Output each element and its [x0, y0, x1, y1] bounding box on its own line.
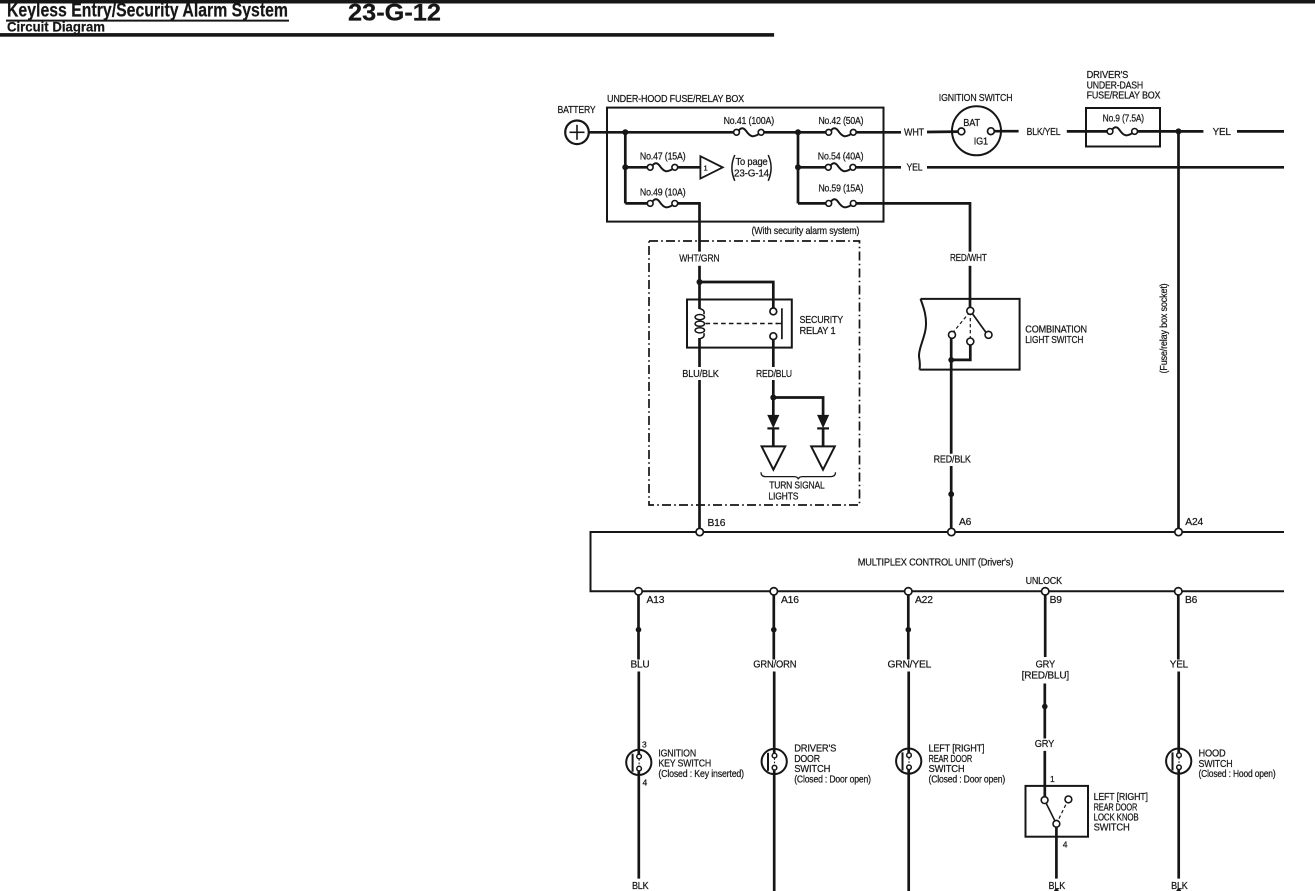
- wire: node to fuse54: [798, 166, 826, 169]
- svg-text:A6: A6: [959, 517, 972, 528]
- wire: IG1 to BLK/YEL: [994, 130, 1018, 133]
- svg-text:BATTERY: BATTERY: [558, 105, 596, 116]
- terminal B6: [1175, 588, 1198, 606]
- wire: BLK/YEL to under-dash box: [1067, 130, 1086, 133]
- svg-text:LIGHTS: LIGHTS: [768, 492, 798, 503]
- wire: A22 upper: [907, 595, 910, 660]
- wire: key switch to BLK: [637, 771, 640, 879]
- label TURN SIGNAL LIGHTS: [768, 481, 825, 503]
- svg-text:Circuit Diagram: Circuit Diagram: [7, 20, 105, 35]
- combination switch internal wires: [948, 338, 970, 369]
- fuse No.41 (100A): [724, 116, 774, 136]
- label LEFT [RIGHT] REAR DOOR LOCK KNOB SWITCH: [1094, 792, 1148, 834]
- wire: A22 to rear door switch: [907, 672, 910, 753]
- brace under lamps: [761, 472, 836, 479]
- wire: A16 to door switch: [773, 672, 776, 754]
- svg-text:4: 4: [1063, 840, 1068, 850]
- svg-text:No.49 (10A): No.49 (10A): [640, 187, 686, 198]
- battery B+: [565, 121, 589, 145]
- driver's door switch: [762, 749, 787, 774]
- junction: A6 node: [948, 491, 954, 497]
- svg-text:No.42 (50A): No.42 (50A): [818, 116, 863, 127]
- terminal A24: [1175, 517, 1204, 536]
- svg-text:1: 1: [704, 164, 708, 173]
- ignition key switch: [626, 739, 651, 787]
- left/right rear door switch: [896, 749, 921, 774]
- junction: B9 splice: [1042, 704, 1048, 710]
- junction: relay feed node: [697, 279, 703, 285]
- wire: fuse47 to arrow: [678, 166, 701, 169]
- wire: right bus vertical: [797, 132, 800, 203]
- lamp: turn signal left: [762, 446, 786, 469]
- svg-text:(Closed : Door open): (Closed : Door open): [929, 774, 1006, 785]
- svg-text:4: 4: [643, 778, 648, 788]
- wire: under-dash box to YEL: [1160, 130, 1203, 133]
- junction: battery feed node: [622, 129, 628, 135]
- wire: fuse49 to corner: [678, 203, 700, 251]
- wire: B6 to hood switch: [1177, 672, 1180, 753]
- lock knob switch contacts: [1041, 796, 1072, 827]
- wire: A24 vertical: [1177, 131, 1180, 528]
- diode D2: [817, 415, 829, 446]
- title underline: [6, 20, 289, 22]
- svg-text:BLK/YEL: BLK/YEL: [1027, 127, 1061, 138]
- svg-text:RELAY 1: RELAY 1: [800, 326, 836, 337]
- wire: door switch down: [773, 770, 776, 891]
- junction: A16 splice: [771, 627, 777, 633]
- security alarm dash-dot border: [649, 241, 860, 505]
- junction: A24 branch node: [1176, 128, 1182, 134]
- diode D1: [767, 415, 779, 446]
- arrow to page 23-G-14: [700, 156, 722, 178]
- lamp: turn signal right: [811, 446, 835, 469]
- fuse No.59 (15A): [818, 183, 863, 207]
- label COMBINATION LIGHT SWITCH: [1025, 325, 1087, 347]
- label DRIVER'S DOOR SWITCH: [794, 744, 871, 786]
- svg-text:TURN SIGNAL: TURN SIGNAL: [769, 481, 825, 492]
- terminal B16: [696, 518, 726, 536]
- svg-text:YEL: YEL: [1213, 127, 1232, 138]
- svg-text:WHT: WHT: [904, 127, 925, 138]
- rear door lock knob switch box: [1026, 786, 1089, 837]
- terminal A6: [948, 517, 972, 536]
- wire: GRY to lock knob switch: [1043, 751, 1046, 797]
- svg-text:FUSE/RELAY BOX: FUSE/RELAY BOX: [1087, 91, 1161, 102]
- terminal A13: [635, 588, 665, 606]
- svg-text:BLK: BLK: [632, 881, 649, 891]
- wire: B9 upper: [1044, 595, 1047, 657]
- svg-text:(Closed : Door open): (Closed : Door open): [794, 774, 871, 785]
- label DRIVER'S UNDER-DASH FUSE/RELAY BOX: [1087, 70, 1161, 102]
- note (To page 23-G-14): [732, 155, 771, 181]
- svg-text:BLU: BLU: [631, 660, 650, 671]
- svg-text:GRN/ORN: GRN/ORN: [753, 660, 796, 671]
- fuse No.47 (15A): [640, 151, 686, 171]
- wire: RED/BLK lower: [950, 466, 953, 528]
- svg-text:LIGHT SWITCH: LIGHT SWITCH: [1025, 335, 1083, 346]
- wire: A13 to key switch: [637, 672, 640, 755]
- under-hood fuse/relay box: [607, 108, 884, 222]
- svg-text:3: 3: [642, 739, 647, 749]
- label LEFT [RIGHT] REAR DOOR SWITCH: [929, 744, 1006, 786]
- wire: relay to diodes lower: [772, 380, 775, 416]
- hood switch: [1166, 749, 1191, 774]
- fuse No.42 (50A): [818, 116, 863, 136]
- svg-text:[RED/BLU]: [RED/BLU]: [1022, 670, 1070, 681]
- junction: node after fuse41: [795, 129, 801, 135]
- page top rule: [0, 0, 1315, 3]
- wire: battery to fuse No.41: [589, 131, 734, 134]
- svg-text:YEL: YEL: [907, 162, 923, 173]
- junction: fuse54 node: [795, 164, 801, 170]
- wire: relay to B16 upper: [698, 348, 701, 367]
- wire: bus to fuse49: [625, 202, 647, 205]
- svg-text:A16: A16: [781, 595, 799, 606]
- label GRY [RED/BLU]: [1022, 660, 1070, 682]
- wire: WHT to ignition switch: [927, 130, 958, 133]
- svg-text:23-G-12: 23-G-12: [348, 0, 441, 27]
- fuse No.54 (40A): [818, 151, 864, 171]
- relay armature dashes: [706, 308, 782, 339]
- driver's under-dash fuse/relay box: [1086, 108, 1160, 147]
- relay contacts: [770, 308, 777, 348]
- wire: bus to fuse59: [798, 202, 826, 205]
- wire: fuse42 out to WHT: [856, 131, 901, 134]
- svg-text:IGNITION SWITCH: IGNITION SWITCH: [939, 93, 1013, 104]
- svg-text:B16: B16: [708, 518, 726, 529]
- svg-text:GRY: GRY: [1035, 739, 1055, 750]
- svg-text:BLU/BLK: BLU/BLK: [682, 369, 719, 380]
- wire: fuse41 to fuse42: [764, 131, 826, 134]
- label IGNITION KEY SWITCH: [658, 748, 744, 780]
- svg-text:1: 1: [1050, 774, 1055, 784]
- svg-text:GRY: GRY: [1036, 660, 1056, 671]
- junction: A13 splice: [636, 627, 642, 633]
- wire: lock knob switch to BLK: [1055, 827, 1058, 878]
- svg-text:SECURITY: SECURITY: [800, 315, 844, 326]
- svg-text:No.9 (7.5A): No.9 (7.5A): [1103, 114, 1144, 125]
- wire: fuse54 out to YEL: [856, 166, 901, 169]
- svg-text:YEL: YEL: [1170, 660, 1189, 671]
- svg-text:(Closed : Hood open): (Closed : Hood open): [1199, 769, 1276, 780]
- wire: YEL bus to right edge: [927, 166, 1284, 169]
- svg-text:To page: To page: [736, 157, 768, 168]
- header rule: [0, 34, 774, 37]
- ignition switch: [952, 106, 1001, 155]
- combination light switch box: [919, 299, 1020, 370]
- wire: B6 upper: [1177, 595, 1180, 660]
- svg-text:(Fuse/relay box socket): (Fuse/relay box socket): [1159, 284, 1170, 374]
- wire: battery feed vertical: [624, 132, 627, 203]
- security relay 1 box: [687, 300, 792, 348]
- multiplex control unit box: [591, 532, 1285, 591]
- wire: YEL to right edge: [1237, 130, 1284, 133]
- svg-text:23-G-14: 23-G-14: [734, 168, 769, 179]
- svg-text:(Closed : Key inserted): (Closed : Key inserted): [658, 769, 744, 780]
- wire: RED/WHT to combination switch: [969, 266, 972, 307]
- svg-text:RED/BLU: RED/BLU: [756, 369, 792, 380]
- wire: WHT/GRN to relay: [698, 266, 701, 309]
- svg-text:RED/BLK: RED/BLK: [934, 455, 971, 466]
- svg-text:A22: A22: [915, 595, 933, 606]
- svg-text:No.41 (100A): No.41 (100A): [724, 116, 774, 127]
- svg-text:B6: B6: [1185, 595, 1198, 606]
- junction: fuse47 node: [622, 164, 628, 170]
- label HOOD SWITCH: [1199, 749, 1276, 780]
- svg-text:A13: A13: [647, 595, 665, 606]
- svg-text:IG1: IG1: [974, 136, 989, 147]
- svg-text:(With security alarm system): (With security alarm system): [752, 226, 860, 237]
- svg-text:GRN/YEL: GRN/YEL: [888, 660, 932, 671]
- junction: A22 splice: [906, 627, 912, 633]
- svg-text:SWITCH: SWITCH: [1094, 823, 1130, 834]
- wire: diode branch jumper: [773, 398, 823, 416]
- terminal B9: [1042, 588, 1063, 606]
- svg-text:BAT: BAT: [963, 118, 980, 129]
- wire: hood switch to BLK: [1177, 769, 1180, 878]
- svg-text:A24: A24: [1185, 517, 1203, 528]
- wire: A16 upper: [772, 595, 775, 660]
- fuse No.49 (10A): [640, 187, 686, 207]
- svg-text:No.54 (40A): No.54 (40A): [818, 151, 864, 162]
- wire: relay to B16 lower: [698, 380, 701, 528]
- svg-text:UNLOCK: UNLOCK: [1026, 576, 1063, 587]
- junction: diode branch node: [770, 395, 776, 401]
- label SECURITY RELAY 1: [800, 315, 844, 337]
- wire: relay coil jumper: [700, 282, 774, 308]
- wire: fuse59 out to corner: [856, 203, 970, 251]
- svg-text:No.47 (15A): No.47 (15A): [640, 151, 686, 162]
- ground stub (lock knob): [1054, 889, 1059, 891]
- svg-text:MULTIPLEX CONTROL UNIT (Driver: MULTIPLEX CONTROL UNIT (Driver's): [858, 557, 1013, 568]
- wire: RED/BLK upper: [950, 370, 953, 454]
- wire: relay to diodes upper: [772, 348, 775, 367]
- wire: B9 middle: [1043, 684, 1046, 739]
- wire: bus to fuse47: [625, 166, 647, 169]
- svg-text:RED/WHT: RED/WHT: [950, 253, 987, 264]
- svg-text:WHT/GRN: WHT/GRN: [679, 254, 719, 265]
- svg-text:B9: B9: [1050, 595, 1063, 606]
- svg-text:Keyless Entry/Security Alarm S: Keyless Entry/Security Alarm System: [7, 1, 288, 22]
- terminal A22: [905, 588, 934, 606]
- wire: A13 upper: [637, 595, 640, 660]
- relay coil: [695, 309, 704, 348]
- svg-text:UNDER-HOOD FUSE/RELAY BOX: UNDER-HOOD FUSE/RELAY BOX: [607, 94, 744, 105]
- fuse No.9 (7.5A): [1086, 114, 1160, 136]
- svg-text:No.59 (15A): No.59 (15A): [818, 183, 863, 194]
- terminal A16: [770, 588, 799, 606]
- wire: rear door switch down: [907, 769, 910, 891]
- ground stub (hood): [1176, 889, 1181, 891]
- svg-text:COMBINATION: COMBINATION: [1025, 325, 1087, 336]
- combination light switch contacts: [949, 307, 993, 345]
